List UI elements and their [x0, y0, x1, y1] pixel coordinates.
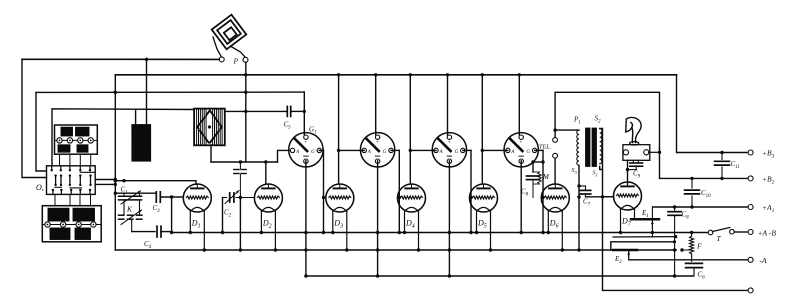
wires coil bank upper to switch — [59, 154, 61, 166]
wire left outer vertical — [22, 59, 47, 177]
wires G left legs — [339, 149, 365, 151]
triode tube D6 — [541, 184, 569, 252]
grid condenser C8 and leak M — [521, 160, 550, 197]
wire left vertical x52 to line y109 — [52, 109, 194, 166]
capacitor C6 — [686, 263, 706, 280]
wire block lead right — [146, 59, 148, 124]
wire B+ plate bus — [115, 74, 676, 76]
wire S1 bottom stub — [600, 167, 603, 170]
tuning coil bank lower — [42, 206, 101, 242]
svg-text:+: + — [376, 140, 379, 146]
wire C2 left leg — [222, 198, 224, 233]
transformer A1 — [572, 115, 602, 178]
wire busD — [603, 197, 749, 291]
rheostat E2 — [613, 250, 637, 265]
wire right rail of block — [171, 197, 173, 233]
triode tube D5 — [470, 184, 498, 252]
capacitor C10 — [685, 178, 712, 207]
wire block lead left — [135, 109, 137, 125]
antenna terminal right — [243, 57, 248, 62]
loop antenna spiral — [209, 12, 249, 57]
wire busA — [172, 232, 709, 234]
svg-text:+: + — [519, 140, 522, 146]
switch T on +A-B line — [708, 228, 734, 244]
svg-text:P: P — [233, 57, 239, 66]
wire top antenna bus — [22, 58, 219, 60]
triode tube D1 — [183, 184, 211, 252]
svg-text:G: G — [455, 150, 459, 155]
triode tube D4 — [398, 184, 426, 252]
triode tube D2 — [254, 184, 282, 252]
wire speaker box right terminal link — [649, 151, 660, 153]
svg-text:+A -B: +A -B — [758, 229, 777, 238]
wire left vertical x36 — [36, 92, 47, 171]
antenna terminal left — [219, 57, 224, 62]
wires plate feed verticals — [338, 75, 340, 184]
wire speaker left drop to D7 plate — [627, 160, 629, 184]
wire C4 link — [132, 231, 155, 233]
capacitor C9 — [628, 160, 643, 179]
capacitor C11 — [715, 153, 740, 179]
wire +B2 line — [660, 149, 749, 178]
svg-text:K: K — [126, 205, 133, 214]
rheostat E1 — [631, 209, 659, 228]
terminal +B3 — [748, 150, 753, 155]
wire T to terminal — [734, 231, 748, 233]
wire +A1 left drop — [651, 207, 653, 233]
terminal bottom right — [748, 288, 753, 293]
wire link segment upper — [651, 233, 653, 238]
wire D7 grid left — [603, 196, 614, 198]
triode tube D3 — [326, 184, 354, 252]
wire switch O to rail upper — [95, 179, 115, 181]
trimmer capacitor dashed above C2 — [234, 160, 246, 199]
terminal +B2 — [748, 176, 753, 181]
wire TEL feed — [555, 129, 579, 131]
wire C7 to D7 grid — [586, 196, 614, 198]
wire grid line y92 — [36, 91, 304, 93]
capacitor C8 right — [668, 207, 689, 278]
svg-text:-A: -A — [760, 256, 767, 265]
capacitor C3 — [155, 192, 157, 202]
wire G1 left leg to D2 plate — [278, 150, 293, 162]
svg-text:+: + — [304, 140, 307, 146]
wire antenna down vertical — [245, 62, 247, 162]
variable capacitor K dashed — [119, 200, 142, 232]
svg-text:M: M — [542, 173, 550, 181]
svg-text:TEL.: TEL. — [539, 144, 551, 151]
TEL jack terminals — [553, 138, 558, 143]
variable capacitor C1 — [119, 186, 142, 205]
switch unit G — [504, 133, 538, 167]
svg-text:O,: O, — [36, 183, 44, 192]
wire D7 base legs — [620, 208, 622, 232]
wire C4 to rail — [161, 231, 172, 233]
wire D1 plate line — [115, 181, 196, 185]
wire switch O to rail lower — [95, 183, 115, 185]
wire +B3 line — [677, 75, 749, 153]
terminal +A -B — [748, 230, 753, 235]
wire -A line — [629, 259, 748, 261]
wire D2 plate drop — [265, 162, 267, 184]
wire grid line to C3 — [115, 192, 156, 194]
wire TEL top up — [555, 92, 659, 149]
wires switch O to lower bank — [54, 194, 56, 205]
wire S2 top to grid rail — [600, 129, 603, 197]
terminal +A1 — [748, 205, 753, 210]
svg-text:G: G — [526, 150, 530, 155]
switch unit G — [432, 133, 466, 167]
wire left rail — [114, 75, 116, 250]
coupler box with crystal pattern — [194, 109, 225, 146]
wire y162 link — [211, 161, 278, 163]
switch unit G — [289, 133, 323, 167]
svg-text:+: + — [448, 140, 451, 146]
wire G1 top drop — [303, 92, 305, 135]
wire C3 to D1 grid — [160, 196, 183, 198]
wire link segment lower — [611, 242, 675, 250]
fuse F — [680, 231, 702, 261]
terminal -A — [748, 257, 753, 262]
wire G4 right horizontal — [533, 161, 543, 163]
wires G bottoms down — [305, 161, 307, 276]
wires G right drops to grids and busA — [319, 149, 323, 151]
horn loudspeaker — [623, 117, 650, 160]
tuning coil bank upper — [55, 125, 98, 154]
switch unit G — [360, 133, 394, 167]
svg-text:S3: S3 — [572, 168, 578, 175]
resistor block dark — [132, 125, 151, 161]
wire C2 right leg down — [239, 198, 241, 251]
svg-text:S1: S1 — [593, 171, 598, 178]
svg-text:F: F — [696, 242, 702, 251]
capacitor C7 — [579, 186, 591, 207]
wire G tops to B+ bus — [375, 75, 377, 135]
switch box O — [47, 166, 96, 195]
wire busC — [306, 275, 694, 277]
wire P1 bottom to C7 and busB — [578, 166, 580, 251]
capacitor C5 — [286, 106, 288, 116]
wire D6 plate to TEL — [554, 156, 556, 184]
wire busB — [115, 249, 676, 251]
triode tube D7 — [614, 182, 642, 227]
capacitor C4 — [156, 226, 158, 237]
variable capacitor C2 — [223, 191, 255, 219]
wire coupler bottom lead — [210, 145, 212, 162]
svg-text:G: G — [311, 150, 315, 155]
svg-text:G: G — [383, 150, 387, 155]
wire +A1 line — [653, 206, 748, 208]
wire C5 line — [225, 110, 287, 112]
